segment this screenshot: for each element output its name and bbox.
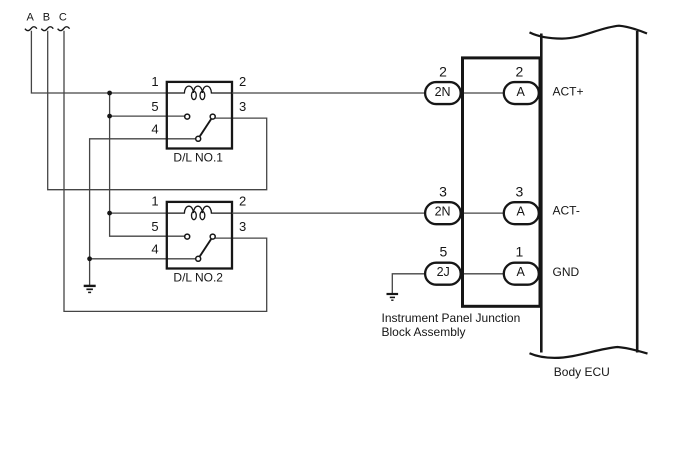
svg-text:2N: 2N (435, 205, 451, 219)
wire 2N to A row2 (462, 212, 504, 214)
svg-text:3: 3 (439, 184, 447, 200)
svg-text:5: 5 (151, 99, 158, 114)
node C label (59, 12, 67, 24)
svg-text:5: 5 (151, 219, 158, 234)
connector A row3 oval (504, 263, 539, 285)
relay D/L NO.1 pin3 contact circle (210, 114, 215, 119)
wire 2N to A row1 (462, 92, 504, 94)
svg-text:ACT-: ACT- (553, 203, 580, 217)
svg-text:5: 5 (440, 243, 448, 259)
wire relay2 pin1 (110, 212, 167, 214)
relay D/L NO.2 coil (167, 206, 232, 220)
connector 2N row1 oval (425, 82, 461, 104)
svg-text:2: 2 (439, 64, 447, 80)
relay D/L NO.2 box (167, 202, 232, 269)
junction dot on pin1 row (107, 91, 112, 96)
svg-text:1: 1 (516, 243, 524, 259)
connector A row3 pin 1 label (516, 243, 524, 259)
svg-text:2J: 2J (437, 265, 450, 279)
svg-text:Body ECU: Body ECU (554, 365, 610, 379)
relay D/L NO.1 box (167, 82, 232, 149)
connector A row2 oval (504, 202, 539, 224)
relay D/L NO.1 pin 3 label (239, 99, 246, 114)
wire ground drop (89, 259, 91, 286)
wire 2J to A row3 (462, 273, 504, 275)
relay D/L NO.2 pin 5 label (151, 219, 158, 234)
wire C: down, right, up to relay2 pin3 (64, 31, 267, 312)
wire relay1 pin2 to connector 2N row1 (232, 92, 425, 94)
junction dot on ground branch (87, 256, 92, 261)
svg-text:D/L NO.2: D/L NO.2 (173, 270, 223, 284)
junction dot on relay2 pin1 row (107, 211, 112, 216)
svg-text:3: 3 (239, 219, 246, 234)
junction dot on relay1 pin5 row (107, 114, 112, 119)
connector 2J pin 5 label (440, 243, 448, 259)
Body ECU left edge (540, 34, 543, 353)
connector 2N row2 oval (425, 202, 461, 224)
svg-text:Instrument Panel Junction: Instrument Panel Junction (382, 311, 521, 325)
relay D/L NO.1 pin 2 label (239, 74, 246, 89)
wire branch vertical to relay pins 5 (110, 93, 185, 236)
wire break symbol A (25, 27, 37, 31)
relay D/L NO.1 pin 5 label (151, 99, 158, 114)
svg-text:C: C (59, 12, 67, 24)
relay D/L NO.1 coil (167, 86, 232, 100)
svg-text:2: 2 (239, 74, 246, 89)
svg-text:A: A (517, 205, 526, 219)
relay D/L NO.2 pin5 contact circle (185, 234, 190, 239)
relay D/L NO.1 pin4 contact circle (196, 136, 201, 141)
node B label (43, 12, 50, 24)
connector A row1 oval (504, 82, 539, 104)
relay D/L NO.2 switch arm (200, 239, 211, 256)
relay D/L NO.2 pin 2 label (239, 194, 246, 209)
svg-text:2N: 2N (435, 85, 451, 99)
relay D/L NO.2 name label (173, 270, 223, 284)
svg-text:4: 4 (151, 241, 158, 256)
ACT- label (553, 203, 580, 217)
connector 2N row2 pin 3 label (439, 184, 447, 200)
svg-text:2: 2 (239, 194, 246, 209)
relay D/L NO.1 pin 4 label (151, 122, 158, 137)
connector 2J oval (425, 263, 461, 285)
svg-text:A: A (517, 265, 526, 279)
svg-text:A: A (517, 85, 526, 99)
relay D/L NO.1 name label (173, 150, 223, 164)
svg-text:ACT+: ACT+ (553, 84, 584, 98)
svg-text:2: 2 (516, 64, 524, 80)
relay D/L NO.2 pin 4 label (151, 241, 158, 256)
connector 2N row1 pin 2 label (439, 64, 447, 80)
svg-text:3: 3 (516, 184, 524, 200)
svg-text:A: A (27, 12, 35, 24)
wire break symbol B (41, 27, 53, 31)
svg-text:Block Assembly: Block Assembly (382, 325, 466, 339)
Body ECU label (554, 365, 610, 379)
svg-text:B: B (43, 12, 50, 24)
relay D/L NO.2 pin 1 label (151, 194, 158, 209)
relay D/L NO.2 pin4 contact circle (196, 256, 201, 261)
ACT+ label (553, 84, 584, 98)
ground symbol right (387, 294, 399, 300)
Instrument Panel Junction Block label (382, 311, 521, 339)
Body ECU right edge (636, 31, 639, 353)
wire B: down, right, up to relay1 pin3 (48, 31, 267, 190)
connector A row1 pin 2 label (516, 64, 524, 80)
relay D/L NO.2 pin 3 label (239, 219, 246, 234)
relay D/L NO.2 pin3 contact circle (210, 234, 215, 239)
relay D/L NO.1 pin5 contact circle (185, 114, 190, 119)
relay D/L NO.1 pin 1 label (151, 74, 158, 89)
wire break symbol C (58, 27, 70, 31)
svg-text:3: 3 (239, 99, 246, 114)
Body ECU torn top edge (530, 26, 648, 39)
Instrument Panel Junction Block box (463, 58, 541, 306)
svg-text:D/L NO.1: D/L NO.1 (173, 150, 223, 164)
GND label (553, 265, 580, 279)
svg-text:1: 1 (151, 74, 158, 89)
relay D/L NO.1 switch arm (200, 119, 211, 136)
svg-text:1: 1 (151, 194, 158, 209)
svg-text:GND: GND (553, 265, 580, 279)
connector A row2 pin 3 label (516, 184, 524, 200)
wire relay2 pin2 to connector 2N row2 (232, 212, 425, 214)
svg-text:4: 4 (151, 122, 158, 137)
wire relay1 pin5 (110, 115, 185, 117)
node A label (27, 12, 35, 24)
wire relay1 pin4 down to relay2 pin4 (90, 139, 196, 259)
wire A: down then right to relay1 pin1 (31, 31, 166, 93)
wire ground to 2J (392, 274, 424, 294)
ground symbol left (84, 286, 96, 293)
Body ECU torn bottom edge (530, 347, 648, 358)
